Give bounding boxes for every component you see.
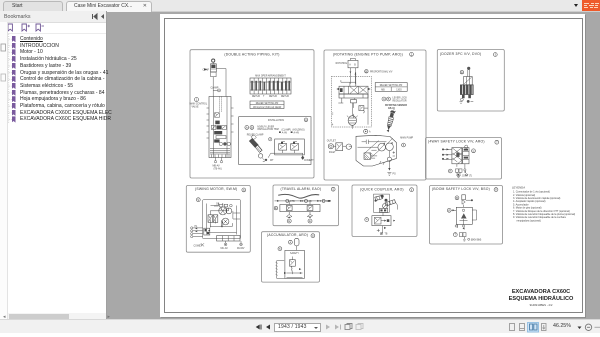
- valve block bottom ports MB-AV MBV: [213, 158, 223, 171]
- svg-text:A: A: [246, 126, 248, 130]
- svg-text:REGULATOR: REGULATOR: [393, 99, 407, 102]
- svg-text:9148213BES - 2/2: 9148213BES - 2/2: [530, 303, 553, 307]
- gear box ports GB: [216, 204, 232, 210]
- svg-text:P: P: [448, 208, 450, 212]
- svg-text:C: C: [473, 149, 475, 153]
- return line with hatching: [275, 261, 285, 279]
- proportional v/v label: [365, 69, 393, 73]
- coupler sub-frame: [374, 194, 390, 212]
- nav: last page (disabled): [335, 324, 341, 329]
- zoom dropdown + minus + slider: [578, 326, 582, 329]
- drain rails: [284, 268, 303, 277]
- svg-text:B: B: [388, 97, 390, 101]
- pump (engine PTO): [332, 103, 358, 129]
- pilot valve + relief: [338, 94, 368, 125]
- svg-text:CLAMP: CLAMP: [211, 87, 219, 90]
- wire pair to valve: [350, 68, 357, 84]
- node P2: [447, 208, 456, 212]
- svg-text:MB: MB: [381, 89, 385, 91]
- ports A B labels: [245, 126, 279, 137]
- svg-text:(TRAVEL ALARM, EAO): (TRAVEL ALARM, EAO): [281, 187, 322, 191]
- lever lock regulator label: [382, 97, 407, 110]
- wire from check valve to main control valve: [211, 69, 227, 97]
- coupler cylinder 2: [385, 199, 398, 210]
- node E left: [274, 206, 277, 210]
- svg-text:190 kg/cm2 (340 psi) GEAR: 190 kg/cm2 (340 psi) GEAR: [253, 106, 282, 109]
- svg-text:OUTLET: OUTLET: [327, 140, 337, 142]
- dozer pilot valve assembly: [460, 67, 474, 103]
- svg-text:A: A: [290, 240, 292, 244]
- relief setting table: [250, 101, 284, 109]
- enclosure: quick coupler: [352, 185, 417, 237]
- node A junction: [364, 129, 371, 133]
- enclosure: travel alarm: [273, 185, 339, 226]
- nav: next page (disabled): [326, 324, 330, 329]
- history icons: [345, 323, 352, 329]
- svg-text:RELIEF SETTING PR: RELIEF SETTING PR: [380, 85, 403, 87]
- svg-text:(DOUBLE ACTING PIPING, KIT): (DOUBLE ACTING PIPING, KIT): [224, 53, 279, 57]
- coupler cylinder 1: [375, 195, 384, 202]
- svg-text:T: T: [263, 96, 265, 98]
- svg-text:MB-AV: MB-AV: [213, 165, 221, 168]
- pressure line with test points: [275, 199, 331, 203]
- svg-text:RETUR: RETUR: [252, 96, 260, 98]
- coupler piston circle: [383, 203, 388, 208]
- max oper arrangement table: [250, 75, 291, 98]
- svg-text:B: B: [251, 126, 253, 130]
- node B2: [278, 247, 282, 251]
- swing motor M1: [214, 203, 233, 226]
- svg-text:AB: AB: [326, 200, 330, 203]
- enclosure: accumulator: [262, 232, 320, 282]
- svg-text:(4WAY SAFETY LOCK V/V, ARO): (4WAY SAFETY LOCK V/V, ARO): [428, 140, 485, 144]
- accumulator capsule: [294, 238, 299, 250]
- drain rail and COMETT node: [268, 150, 314, 162]
- svg-text:130G: 130G: [396, 89, 402, 91]
- svg-text:MU-BV: MU-BV: [237, 248, 245, 250]
- svg-text:LEYENDA: LEYENDA: [512, 186, 525, 190]
- directional control valve: [336, 72, 370, 98]
- node T and outlet fitting: [453, 233, 481, 242]
- svg-text:RETUR: RETUR: [281, 96, 289, 98]
- svg-text:E: E: [275, 206, 277, 210]
- motor ports: [191, 226, 203, 238]
- svg-text:(HOLDING): (HOLDING): [293, 130, 305, 132]
- svg-text:LEVER LOCK: LEVER LOCK: [393, 98, 408, 100]
- grease injector symbol: [249, 135, 274, 162]
- svg-text:(ROTATING (ENGINE PTO PUMP, AR: (ROTATING (ENGINE PTO PUMP, ARO)): [333, 52, 403, 56]
- svg-text:4/TB: 4/TB: [290, 201, 295, 203]
- title block text EXCAVADORA CX60C: [509, 289, 574, 307]
- crossover relief valves: [208, 208, 229, 228]
- svg-text:COMETT: COMETT: [304, 160, 314, 162]
- svg-text:A: A: [305, 118, 307, 122]
- legend LEYENDA: [512, 186, 575, 223]
- svg-text:RETUR: RETUR: [269, 96, 277, 98]
- sensor tip marks: [393, 110, 397, 113]
- view mode icons: [510, 323, 515, 330]
- PDF reader chrome: [0, 0, 600, 12]
- svg-text:A: A: [369, 131, 371, 134]
- svg-text:A-HV: A-HV: [294, 131, 300, 134]
- svg-text:A: A: [349, 63, 351, 66]
- svg-text:(QUICK COUPLER, ARO): (QUICK COUPLER, ARO): [360, 187, 404, 191]
- main pump label: [400, 136, 413, 147]
- drain check nodes: [455, 225, 465, 230]
- pilot node and drain: [448, 169, 472, 178]
- svg-text:(CLAMP): (CLAMP): [282, 129, 292, 132]
- drawing frame: [165, 19, 583, 313]
- svg-text:(BOOM SAFETY LOCK V/V, BSO): (BOOM SAFETY LOCK V/V, BSO): [432, 187, 490, 191]
- svg-text:ROTATING: ROTATING: [336, 62, 348, 65]
- svg-text:PROPORTIONAL V/V: PROPORTIONAL V/V: [370, 70, 393, 73]
- safety valve housing: [285, 250, 305, 278]
- sensor injector symbol: [385, 110, 396, 133]
- drain lines to ports MU-AV MU-BV: [194, 241, 245, 250]
- svg-text:TB: TB: [385, 234, 388, 236]
- clamp/holding pilot valves: [269, 129, 305, 155]
- outlet port: [327, 140, 352, 154]
- enclosure: rotating engine PTO pump: [324, 50, 426, 180]
- svg-text:ESQUEMA HIDRÁULICO: ESQUEMA HIDRÁULICO: [509, 295, 574, 302]
- svg-text:JOINT (T): JOINT (T): [462, 175, 472, 177]
- svg-text:E: E: [309, 219, 311, 223]
- check valve CONF: [203, 59, 217, 77]
- main pump assembly: [356, 135, 396, 170]
- svg-text:GB: GB: [216, 204, 220, 206]
- svg-text:P: P: [449, 169, 451, 173]
- svg-text:B: B: [461, 70, 463, 74]
- enclosure: boom safety lock valve: [430, 186, 503, 245]
- svg-text:B: B: [366, 69, 368, 73]
- svg-text:RELIEF SETTING PR: RELIEF SETTING PR: [256, 103, 279, 105]
- main control valve block: [207, 97, 234, 158]
- pilot relief stem: [462, 195, 473, 208]
- node A2: [289, 240, 293, 244]
- svg-text:INLET: INLET: [329, 152, 336, 154]
- alarm switches: [287, 212, 313, 223]
- lock valve block: [456, 207, 476, 228]
- valve ports with flow arrows: [442, 148, 466, 173]
- svg-text:S: S: [197, 198, 199, 202]
- svg-text:WT: WT: [270, 160, 274, 162]
- tank symbol PG: [387, 173, 396, 176]
- pilot port node B: [455, 196, 459, 200]
- sub-enclosure INSTALLATION: [239, 117, 311, 165]
- svg-text:B: B: [354, 64, 356, 66]
- A/TB pilot valve: [365, 216, 395, 226]
- nav: prev page: [266, 324, 270, 329]
- enclosure: double acting piping kit: [190, 50, 314, 178]
- svg-text:(SWING MOTOR, SW.M): (SWING MOTOR, SW.M): [195, 187, 237, 191]
- enclosure: 4-way safety lock valve: [426, 138, 502, 180]
- svg-text:empujadora (opcional): empujadora (opcional): [517, 219, 541, 222]
- safety lock valve block: [452, 145, 476, 164]
- hose (wavy cable): [278, 194, 319, 198]
- svg-text:INSTALLATION: INSTALLATION: [268, 119, 284, 122]
- coupler manifold: [379, 208, 387, 215]
- svg-text:AB: AB: [309, 200, 313, 203]
- svg-text:E: E: [288, 219, 290, 223]
- svg-text:ROTATING SENSOR: ROTATING SENSOR: [385, 104, 407, 107]
- svg-text:A: A: [383, 97, 385, 101]
- svg-text:B: B: [456, 196, 458, 200]
- sub-enclosure pilot group: [331, 76, 371, 127]
- node S: [196, 198, 200, 202]
- svg-text:MU-AV: MU-AV: [221, 247, 229, 250]
- enclosure: swing motor: [186, 186, 250, 253]
- svg-text:(TB-AV): (TB-AV): [214, 167, 222, 170]
- svg-text:MAIN CONTROL: MAIN CONTROL: [190, 103, 208, 106]
- enclosure: dozer 3PC valve: [437, 50, 504, 112]
- drain to tank TB: [377, 226, 388, 236]
- svg-text:NO/BUY LEVER: NO/BUY LEVER: [257, 126, 274, 128]
- svg-text:COMET: COMET: [194, 245, 203, 247]
- svg-text:4: 4: [332, 125, 334, 127]
- svg-text:MAX OPER ARRANGEMENT: MAX OPER ARRANGEMENT: [255, 75, 286, 78]
- svg-text:SAFETY: SAFETY: [290, 252, 299, 255]
- svg-text:(ACCUMULATOR, ARO): (ACCUMULATOR, ARO): [267, 233, 308, 237]
- svg-text:EXCAVADORA CX60C: EXCAVADORA CX60C: [512, 289, 570, 295]
- svg-text:2: 2: [332, 114, 334, 116]
- bottom manifold block: [204, 228, 240, 241]
- svg-text:(BKM BM): (BKM BM): [471, 239, 482, 241]
- node 1: main control valve label: [190, 98, 208, 109]
- svg-text:VALVE: VALVE: [192, 105, 200, 108]
- pressure switch manifold: [280, 201, 320, 212]
- nav: first page: [256, 324, 262, 329]
- rotating selector valve: [336, 58, 358, 67]
- svg-text:MAIN PUMP: MAIN PUMP: [400, 136, 413, 139]
- relief setting table 2: [375, 83, 407, 92]
- svg-text:INSTALLATION TBM: INSTALLATION TBM: [257, 128, 279, 131]
- swing motor circuit outline: [203, 200, 241, 239]
- svg-text:PG: PG: [393, 174, 397, 176]
- svg-text:A-AV: A-AV: [282, 131, 288, 134]
- svg-text:(DOZER 3PC V/V, DVO): (DOZER 3PC V/V, DVO): [440, 52, 481, 56]
